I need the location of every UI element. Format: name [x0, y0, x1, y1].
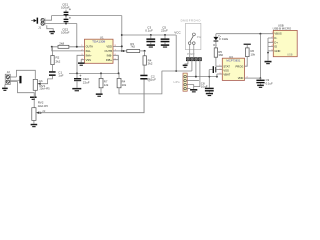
node CE2 bottom / ring wire: [65, 23, 67, 25]
capacitor C8 (battery node): [208, 77, 210, 88]
capacitor C2: [143, 65, 145, 75]
ground (switch): [183, 65, 188, 68]
svg-text:INB-: INB-: [107, 54, 112, 58]
svg-text:0.1uF: 0.1uF: [145, 29, 153, 33]
capacitor C1: [51, 65, 53, 72]
wire VDD pin to VBUS riser: [245, 77, 261, 79]
wire J1 ring to CE2 line: [44, 23, 77, 25]
svg-text:PWR: PWR: [187, 52, 195, 56]
wire J4 pin1 to battery node: [187, 76, 217, 78]
node C3 on VCC rail: [150, 34, 152, 36]
node bias/R4 riser: [118, 72, 120, 74]
node battery wire / VBAT: [216, 76, 218, 78]
wire pad3 to battery node: [195, 61, 197, 77]
wire J1 sleeve to ground: [47, 25, 53, 31]
node OUTA: [76, 46, 78, 48]
ground (USB): [265, 61, 272, 64]
connector J1 (3.5mm jack, top-left): [31, 18, 45, 26]
svg-text:VSS: VSS: [86, 58, 92, 62]
wire R8 bottom to VCC drop: [119, 71, 162, 94]
svg-text:J2: J2: [7, 70, 11, 74]
svg-text:VDD: VDD: [238, 76, 244, 80]
node bias/INA+: [76, 72, 78, 74]
ground (pad4 / battery minus): [190, 89, 197, 92]
wire J4 pin3 to ground: [187, 85, 194, 87]
svg-text:USB: USB: [287, 52, 293, 56]
ground (RV1): [30, 97, 37, 100]
IC U3 MCP73831: [222, 58, 244, 80]
node VDD pin: [121, 45, 123, 47]
wire pad4 down to ground: [194, 61, 200, 89]
ground (R7): [96, 93, 103, 96]
resistor R2 (vertical): [51, 47, 53, 56]
svg-text:12k: 12k: [104, 83, 109, 87]
wire VDD riser (top rail down to OUTB row): [121, 16, 123, 51]
svg-text:0.1uF: 0.1uF: [266, 81, 273, 85]
node R3 right: [144, 50, 146, 52]
svg-text:DMGFRD4O: DMGFRD4O: [181, 18, 202, 22]
svg-text:INB+: INB+: [106, 58, 112, 62]
svg-text:22uF: 22uF: [161, 29, 168, 33]
resistor R3 (horizontal): [127, 50, 140, 53]
ground (C9): [257, 85, 264, 88]
node R1 left: [51, 46, 53, 48]
resistor R5 (LED series): [214, 48, 217, 57]
capacitor CE1: [64, 8, 71, 15]
node RV2 wiper: [40, 112, 42, 114]
svg-text:VCC: VCC: [174, 31, 181, 35]
potentiometer RV1: [33, 79, 37, 90]
wire pad1 to ground: [185, 61, 188, 65]
svg-text:GND: GND: [274, 49, 280, 53]
wire INA- row: [52, 47, 85, 51]
svg-text:J1: J1: [38, 25, 42, 29]
wire OUTB row to R3: [113, 50, 127, 52]
node OUTB: [121, 50, 123, 52]
svg-text:VDD: VDD: [106, 45, 112, 49]
svg-text:PROG: PROG: [235, 64, 243, 68]
svg-text:ID: ID: [274, 45, 277, 49]
svg-text:10uF: 10uF: [201, 84, 208, 88]
wire RV1 bottom to ground: [34, 90, 36, 96]
capacitor CE2: [64, 16, 71, 24]
svg-text:D1: D1: [213, 43, 217, 47]
svg-text:STAT: STAT: [223, 64, 230, 68]
wire J2 sleeve to ground: [4, 85, 6, 88]
node bias/R7: [100, 72, 102, 74]
resistor R6 (PROG): [246, 48, 250, 57]
capacitor C7 (VSS side, horizontal): [213, 66, 214, 73]
svg-text:VBAT: VBAT: [223, 72, 230, 76]
wire INB- to bias rail: [113, 55, 118, 73]
ground (J2): [2, 88, 8, 91]
svg-text:1uF: 1uF: [58, 74, 63, 78]
ground (C8): [206, 93, 213, 96]
wire pad2 to VCC node: [191, 61, 193, 71]
svg-text:100uF: 100uF: [61, 31, 70, 35]
potentiometer RV2: [32, 108, 36, 121]
svg-text:22k: 22k: [39, 79, 44, 83]
connector pads PWR (4 pins): [186, 58, 201, 61]
node USB ground riser: [267, 52, 269, 54]
node VCC rail tap: [121, 34, 123, 36]
wire RV2 bottom to ground: [33, 120, 35, 123]
svg-text:10k: 10k: [122, 83, 127, 87]
LED D1 charge indicator: [215, 34, 217, 37]
svg-text:INA-: INA-: [86, 49, 91, 53]
resistor R8 (bias divider to VCC, 10k): [118, 73, 120, 78]
wire top VBUS rail: [216, 33, 273, 35]
svg-text:INA+: INA+: [86, 54, 92, 58]
wire J1 tip to top rail: [44, 16, 51, 21]
svg-text:LiPo: LiPo: [174, 80, 180, 84]
wire C1 to RV1 wiper: [41, 76, 53, 84]
wire R1 leads: [52, 46, 85, 48]
svg-text:D-: D-: [274, 36, 277, 40]
resistor R7 (bias divider upper-left, 10k): [100, 73, 102, 78]
wire INA+ to bias rail: [77, 55, 85, 73]
node VBUS: [259, 33, 261, 35]
VCC rail (top): [122, 34, 176, 36]
svg-text:22uF: 22uF: [83, 80, 90, 84]
svg-text:FW: FW: [197, 35, 202, 39]
node R3 left: [123, 50, 125, 52]
svg-text:1uF: 1uF: [151, 77, 156, 81]
capacitor CE3 (bias): [76, 73, 78, 78]
svg-text:2k2: 2k2: [56, 59, 61, 63]
wire top rail (node between CE1/CE2 to VDD riser): [52, 15, 122, 17]
op-amp U1 TDA1308: [85, 39, 114, 63]
wire C2 down to RV2 wire: [143, 80, 145, 113]
svg-text:RV2: RV2: [38, 101, 44, 105]
wire J4 pin4 to ground: [187, 88, 190, 90]
node C5 on VCC rail: [164, 34, 166, 36]
svg-text:100uF: 100uF: [61, 5, 70, 9]
wire J4 pin2 stub: [187, 80, 199, 82]
wire VSS to ground: [81, 60, 84, 63]
svg-text:2k2: 2k2: [148, 62, 153, 66]
svg-text:D+: D+: [274, 40, 278, 44]
ground (C3): [147, 44, 155, 47]
svg-text:22kA 4F5: 22kA 4F5: [38, 105, 49, 108]
svg-text:TDA1308: TDA1308: [92, 40, 105, 44]
svg-text:MCP73831: MCP73831: [226, 59, 240, 63]
wire J2 tip: [10, 76, 17, 78]
node battery wire / pad3: [195, 76, 197, 78]
ground (RV2): [31, 124, 38, 127]
bias rail (VDD/2): [69, 72, 118, 74]
svg-text:22kA 4F5: 22kA 4F5: [40, 88, 51, 91]
node VCC distribution: [175, 70, 177, 72]
wire STAT to R5: [216, 65, 222, 67]
wire USB data/gnd stubs: [268, 38, 273, 51]
svg-text:F CHG: F CHG: [219, 37, 229, 41]
node junction at CE caps: [65, 15, 67, 17]
wire RV1 top from J2: [16, 70, 35, 79]
capacitor C9 (VDD): [260, 77, 262, 79]
pin numbers U1 (red): [81, 45, 116, 60]
ground (J1): [49, 31, 55, 34]
resistor R4 (vertical): [144, 51, 146, 56]
ground (U1 VSS): [78, 62, 85, 65]
wire VDD pin to VCC riser: [113, 45, 122, 47]
svg-text:VSS: VSS: [223, 68, 229, 72]
ground (C5): [161, 44, 169, 47]
wire CE2/ring node down to OUTA node: [76, 24, 78, 47]
svg-text:10k: 10k: [251, 53, 256, 57]
svg-text:7k5: 7k5: [130, 45, 135, 49]
wire RV2 wiper to C2 riser (long bottom wire): [40, 80, 145, 113]
wire VCC node to battery drop and switch pin: [162, 70, 192, 72]
wire INB+ stub: [113, 56, 118, 60]
svg-text:OUTA: OUTA: [86, 45, 93, 49]
svg-text:OUTB: OUTB: [105, 49, 113, 53]
svg-text:2k8: 2k8: [59, 42, 64, 46]
svg-text:VBUS: VBUS: [274, 32, 282, 36]
wire J2 ring to RV2: [10, 82, 35, 108]
resistor R1 (horizontal): [58, 45, 69, 48]
power flag above R6: [244, 44, 251, 45]
svg-text:360: 360: [218, 53, 223, 57]
wire VCC rail down to switch node: [175, 35, 177, 71]
ground (CE3): [72, 88, 81, 91]
wire R6 to PROG: [245, 57, 248, 67]
